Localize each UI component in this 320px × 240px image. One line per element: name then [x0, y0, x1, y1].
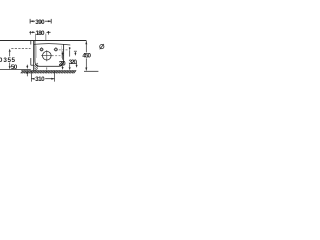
svg-text:220: 220 [59, 60, 66, 67]
svg-text:450: 450 [82, 53, 91, 60]
svg-text:390: 390 [35, 19, 45, 26]
svg-text:50: 50 [11, 64, 18, 71]
svg-text:320: 320 [69, 59, 78, 66]
svg-text:180: 180 [36, 30, 45, 37]
svg-text:355: 355 [3, 57, 15, 64]
svg-text:310: 310 [35, 76, 45, 83]
